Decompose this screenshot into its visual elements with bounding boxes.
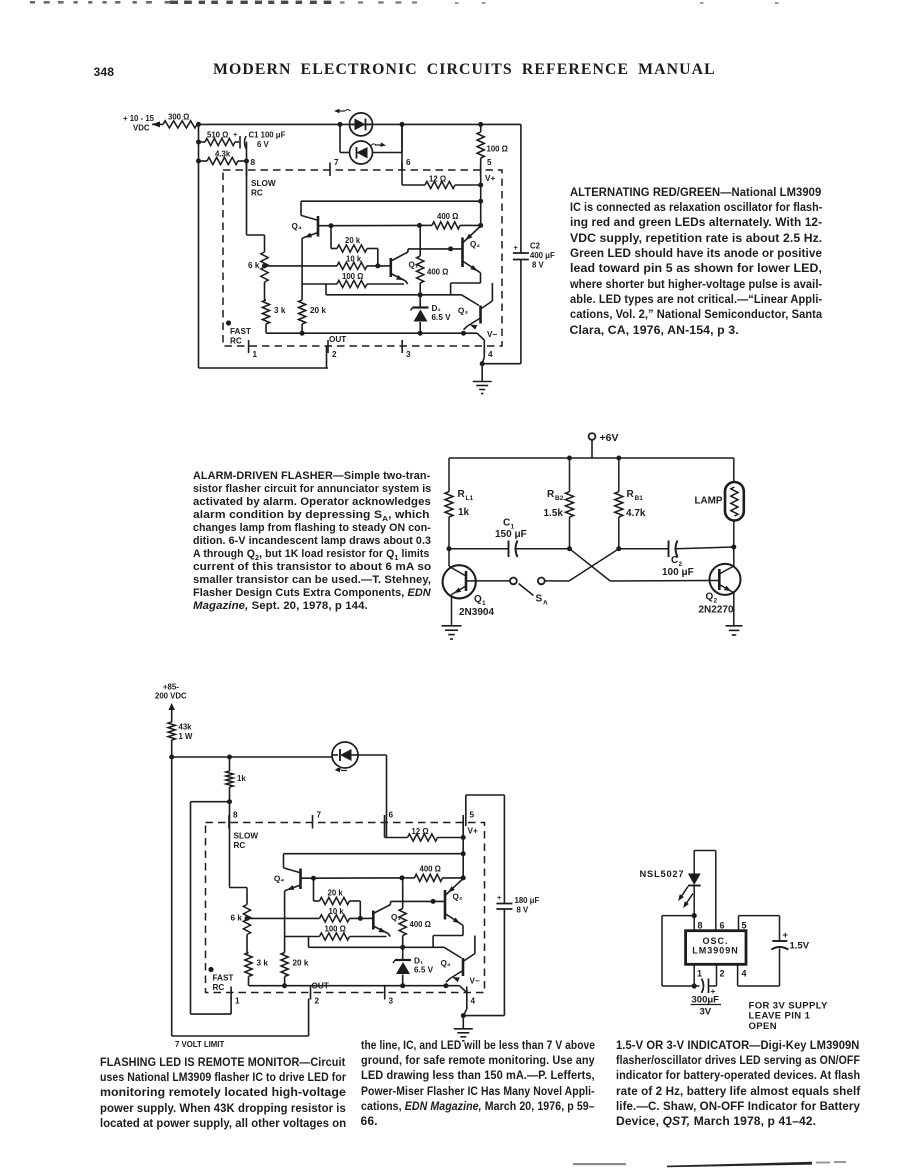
- svg-text:3 k: 3 k: [257, 959, 269, 968]
- svg-text:B1: B1: [635, 495, 644, 502]
- svg-text:43k: 43k: [179, 723, 193, 732]
- svg-text:S: S: [536, 594, 543, 605]
- svg-text:1 W: 1 W: [179, 732, 194, 741]
- svg-text:400 Ω: 400 Ω: [410, 920, 431, 929]
- svg-text:200 VDC: 200 VDC: [155, 692, 187, 701]
- svg-text:20 k: 20 k: [328, 889, 344, 898]
- svg-text:Q₄: Q₄: [274, 875, 284, 884]
- svg-text:1: 1: [697, 969, 702, 979]
- svg-text:FAST: FAST: [230, 327, 251, 336]
- svg-text:20 k: 20 k: [310, 306, 326, 315]
- svg-text:3: 3: [406, 350, 411, 359]
- svg-text:4.7k: 4.7k: [626, 508, 646, 519]
- svg-text:LAMP: LAMP: [695, 496, 723, 507]
- svg-text:D₁: D₁: [414, 957, 424, 966]
- svg-text:6: 6: [389, 811, 394, 820]
- svg-text:1: 1: [235, 997, 240, 1006]
- svg-text:8: 8: [233, 811, 238, 820]
- svg-text:8 V: 8 V: [517, 906, 530, 915]
- svg-text:RC: RC: [213, 983, 225, 992]
- svg-text:12 Ω: 12 Ω: [412, 827, 429, 836]
- svg-text:2N2270: 2N2270: [699, 605, 734, 616]
- svg-text:400 Ω: 400 Ω: [437, 212, 458, 221]
- svg-text:L1: L1: [466, 495, 474, 502]
- svg-text:7 VOLT LIMIT: 7 VOLT LIMIT: [175, 1040, 224, 1049]
- svg-text:2: 2: [332, 350, 337, 359]
- svg-text:2: 2: [714, 598, 718, 605]
- svg-text:2: 2: [315, 997, 320, 1006]
- svg-text:FAST: FAST: [213, 974, 234, 983]
- svg-text:5: 5: [742, 921, 747, 931]
- svg-text:7: 7: [317, 811, 322, 820]
- svg-text:Q₃: Q₃: [458, 307, 468, 316]
- svg-text:20 k: 20 k: [345, 236, 361, 245]
- svg-text:1.5V: 1.5V: [790, 941, 810, 952]
- svg-text:Q₂: Q₂: [453, 893, 463, 902]
- svg-text:1k: 1k: [458, 507, 470, 518]
- svg-text:3: 3: [389, 997, 394, 1006]
- svg-text:OSC.: OSC.: [702, 936, 728, 946]
- svg-text:Q: Q: [474, 594, 482, 605]
- svg-text:8: 8: [698, 921, 703, 931]
- svg-text:Q₂: Q₂: [470, 240, 480, 249]
- svg-text:300 Ω: 300 Ω: [168, 113, 189, 122]
- svg-text:2N3904: 2N3904: [459, 607, 494, 618]
- svg-text:A: A: [543, 600, 548, 607]
- svg-text:NSL5027: NSL5027: [640, 869, 685, 879]
- svg-text:10 k: 10 k: [329, 907, 345, 916]
- svg-text:150 μF: 150 μF: [495, 529, 527, 540]
- svg-text:3 k: 3 k: [274, 306, 286, 315]
- svg-text:D₁: D₁: [432, 304, 442, 313]
- svg-text:OUT: OUT: [329, 335, 346, 344]
- svg-text:100 Ω: 100 Ω: [342, 272, 363, 281]
- svg-text:6 k: 6 k: [248, 261, 260, 270]
- svg-text:V−: V−: [487, 330, 497, 339]
- svg-text:C2: C2: [530, 242, 541, 251]
- svg-text:300μF: 300μF: [692, 995, 720, 1006]
- svg-text:+85-: +85-: [163, 683, 179, 692]
- svg-text:5: 5: [470, 811, 475, 820]
- svg-text:R: R: [627, 489, 635, 500]
- svg-text:1k: 1k: [237, 774, 246, 783]
- svg-text:400 Ω: 400 Ω: [427, 268, 448, 277]
- svg-text:LM3909N: LM3909N: [692, 946, 739, 956]
- svg-text:SLOW: SLOW: [234, 832, 259, 841]
- svg-text:+: +: [233, 130, 238, 139]
- svg-text:+: +: [783, 930, 789, 941]
- svg-text:180 μF: 180 μF: [515, 896, 540, 905]
- svg-text:RC: RC: [230, 337, 242, 346]
- svg-text:8 V: 8 V: [532, 261, 545, 270]
- svg-text:B2: B2: [555, 495, 564, 502]
- svg-text:6: 6: [720, 921, 725, 931]
- svg-text:Q₃: Q₃: [441, 959, 451, 968]
- svg-text:+: +: [514, 243, 519, 252]
- svg-text:3V: 3V: [700, 1007, 712, 1018]
- svg-text:1: 1: [482, 600, 486, 607]
- svg-text:SLOW: SLOW: [251, 179, 276, 188]
- svg-text:2: 2: [720, 969, 725, 979]
- svg-text:6.5 V: 6.5 V: [414, 966, 434, 975]
- svg-text:V−: V−: [470, 977, 480, 986]
- svg-text:+ 10 - 15: + 10 - 15: [123, 114, 155, 123]
- svg-text:6 V: 6 V: [257, 140, 270, 149]
- svg-text:C1 100 μF: C1 100 μF: [249, 131, 286, 140]
- svg-text:12 Ω: 12 Ω: [429, 175, 446, 184]
- svg-text:C: C: [671, 555, 678, 566]
- svg-text:C: C: [503, 518, 510, 529]
- svg-text:V+: V+: [468, 827, 478, 836]
- svg-text:1.5k: 1.5k: [544, 508, 564, 519]
- svg-text:20 k: 20 k: [293, 959, 309, 968]
- svg-text:7: 7: [334, 158, 339, 167]
- svg-text:8: 8: [251, 158, 256, 167]
- svg-text:R: R: [458, 489, 466, 500]
- svg-text:10 k: 10 k: [346, 255, 362, 264]
- svg-text:100 Ω: 100 Ω: [325, 925, 346, 934]
- svg-text:4: 4: [471, 997, 476, 1006]
- svg-text:V+: V+: [485, 174, 495, 183]
- svg-text:VDC: VDC: [133, 124, 150, 133]
- svg-text:RC: RC: [234, 841, 246, 850]
- svg-text:100 Ω: 100 Ω: [487, 145, 508, 154]
- svg-text:6 k: 6 k: [231, 914, 243, 923]
- svg-text:Q: Q: [706, 592, 714, 603]
- svg-text:+: +: [497, 893, 502, 902]
- svg-text:5: 5: [487, 158, 492, 167]
- svg-text:R: R: [547, 489, 555, 500]
- svg-text:4: 4: [742, 969, 747, 979]
- svg-text:400 Ω: 400 Ω: [420, 865, 441, 874]
- svg-text:400 μF: 400 μF: [530, 251, 555, 260]
- svg-text:1: 1: [253, 350, 258, 359]
- svg-text:OPEN: OPEN: [749, 1021, 778, 1032]
- svg-text:+6V: +6V: [600, 432, 619, 444]
- svg-text:RC: RC: [251, 189, 263, 198]
- svg-text:Q₄: Q₄: [292, 222, 302, 231]
- svg-text:4.3k: 4.3k: [215, 150, 231, 159]
- svg-text:6: 6: [406, 158, 411, 167]
- svg-text:510 Ω: 510 Ω: [207, 131, 228, 140]
- svg-text:4: 4: [488, 350, 493, 359]
- svg-text:100 μF: 100 μF: [662, 567, 694, 578]
- svg-text:6.5 V: 6.5 V: [432, 313, 452, 322]
